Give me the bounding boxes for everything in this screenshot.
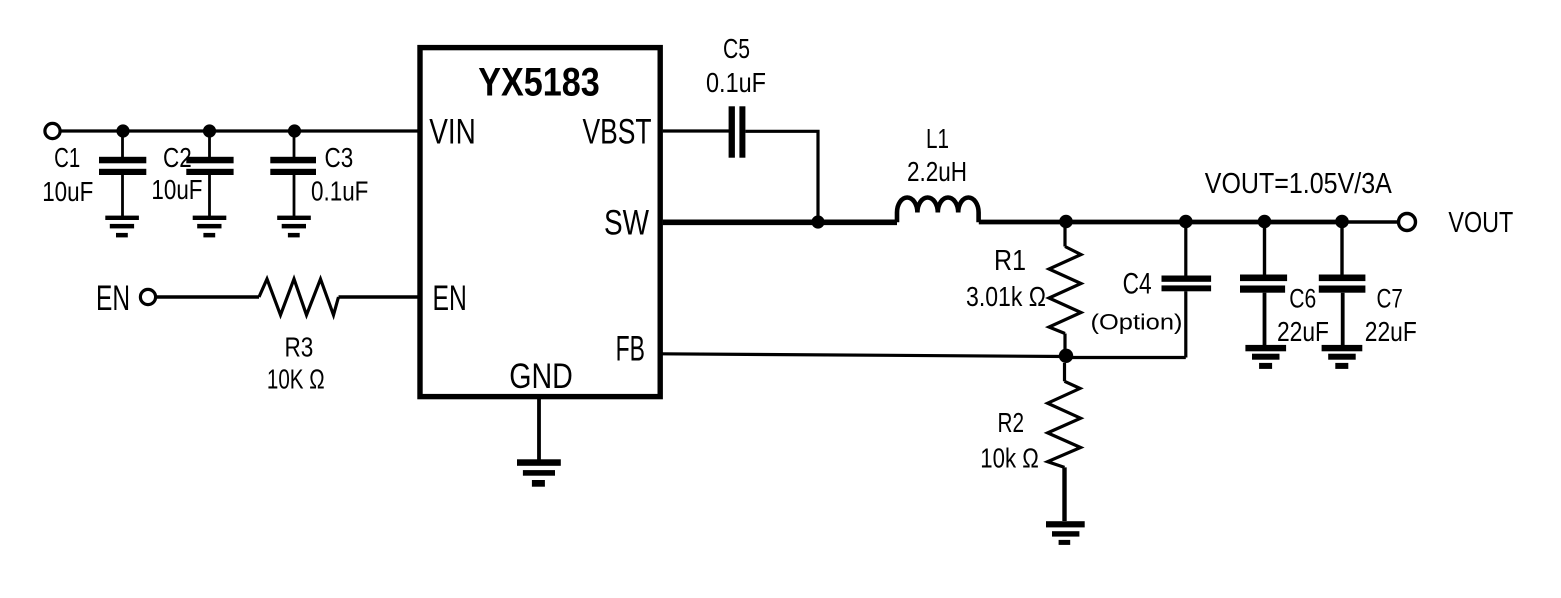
- svg-text:VOUT: VOUT: [1448, 207, 1513, 239]
- svg-text:L1: L1: [926, 123, 949, 154]
- svg-text:C3: C3: [325, 142, 354, 173]
- node SW-VBST: [811, 215, 824, 228]
- svg-text:2.2uH: 2.2uH: [907, 156, 967, 187]
- capacitor C6: [1240, 222, 1287, 346]
- node C6 top: [1258, 215, 1272, 229]
- wire SW pin to inductor: [663, 220, 897, 226]
- wire input rail VIN: [60, 129, 418, 132]
- wire EN to R3: [156, 295, 259, 298]
- resistor R2: [1048, 363, 1081, 521]
- svg-text:FB: FB: [616, 330, 645, 369]
- capacitor C1: [99, 131, 146, 216]
- svg-text:VBST: VBST: [583, 113, 652, 152]
- ground C3: [277, 216, 311, 238]
- capacitor C4: [1162, 222, 1212, 358]
- svg-text:C4: C4: [1123, 268, 1152, 301]
- node C7 top: [1335, 215, 1349, 229]
- ground GND pin: [517, 459, 561, 486]
- terminal VOUT: [1399, 214, 1416, 231]
- wire VBST to C5: [663, 129, 729, 132]
- ground C2: [193, 216, 227, 238]
- svg-text:10K Ω: 10K Ω: [267, 364, 325, 395]
- svg-text:EN: EN: [96, 279, 130, 318]
- svg-text:R3: R3: [285, 332, 314, 363]
- svg-text:GND: GND: [509, 357, 573, 396]
- wire C5 to SW node: [745, 131, 818, 222]
- node FB: [1059, 349, 1073, 363]
- resistor R1: [1049, 222, 1081, 357]
- resistor R3: [259, 279, 339, 315]
- svg-text:0.1uF: 0.1uF: [706, 67, 766, 98]
- svg-text:10uF: 10uF: [42, 176, 93, 207]
- capacitor C7: [1319, 222, 1366, 346]
- svg-text:10uF: 10uF: [151, 174, 202, 205]
- svg-text:10k Ω: 10k Ω: [980, 443, 1039, 474]
- ground C6: [1245, 345, 1286, 369]
- wire R3 to EN pin: [339, 295, 419, 298]
- svg-text:YX5183: YX5183: [478, 60, 600, 104]
- node input-C2: [203, 124, 216, 137]
- capacitor C2: [186, 131, 233, 216]
- wire output rail: [979, 220, 1342, 225]
- node input-C3: [288, 124, 301, 137]
- capacitor C3: [270, 131, 316, 216]
- svg-text:VIN: VIN: [429, 113, 476, 152]
- svg-text:SW: SW: [604, 204, 649, 243]
- svg-text:22uF: 22uF: [1277, 316, 1329, 347]
- svg-text:C1: C1: [54, 142, 80, 173]
- svg-text:22uF: 22uF: [1365, 316, 1417, 347]
- svg-text:C5: C5: [723, 33, 750, 64]
- svg-text:(Option): (Option): [1091, 310, 1183, 335]
- wire FB node to C4 bottom: [1066, 356, 1186, 359]
- svg-text:C2: C2: [163, 142, 192, 173]
- op-amp U1 YX5183 IC box: [420, 48, 660, 397]
- svg-text:3.01k Ω: 3.01k Ω: [966, 281, 1046, 312]
- svg-text:0.1uF: 0.1uF: [311, 176, 368, 207]
- wire GND pin down: [537, 399, 541, 460]
- ground R2: [1046, 521, 1085, 545]
- wire FB pin to node: [660, 354, 1066, 357]
- svg-text:C6: C6: [1289, 284, 1316, 314]
- inductor L1: [897, 197, 979, 222]
- capacitor C5: [729, 106, 746, 157]
- ground C1: [105, 216, 139, 238]
- terminal VIN input: [45, 123, 60, 138]
- svg-text:VOUT=1.05V/3A: VOUT=1.05V/3A: [1205, 168, 1392, 200]
- svg-text:EN: EN: [433, 279, 467, 318]
- terminal EN input: [140, 289, 155, 304]
- node C4 top: [1179, 215, 1193, 229]
- svg-text:R2: R2: [998, 407, 1025, 438]
- svg-text:C7: C7: [1377, 284, 1403, 314]
- ground C7: [1322, 345, 1363, 369]
- node input-C1: [116, 124, 129, 137]
- node L1-R1: [1059, 215, 1073, 229]
- svg-text:R1: R1: [994, 245, 1026, 277]
